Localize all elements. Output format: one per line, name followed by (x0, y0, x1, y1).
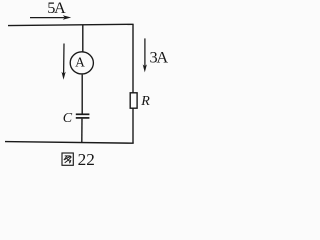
svg-text:R: R (140, 94, 150, 109)
current arrow branch (down, left of ammeter) (62, 44, 66, 80)
capacitor C top plate (76, 113, 90, 115)
wire middle branch upper (top node to ammeter) (82, 25, 84, 52)
resistor R (130, 93, 137, 108)
wire ammeter to capacitor (81, 75, 83, 114)
wire top horizontal (8, 24, 134, 25)
wire right vertical upper (node to resistor) (132, 24, 134, 93)
current arrow 3A (down, right branch) (143, 38, 147, 72)
wire capacitor to bottom (81, 119, 83, 143)
ammeter A (meter circle) (70, 52, 93, 74)
caption glyph 图 (figure) (62, 153, 73, 165)
svg-text:A: A (75, 54, 85, 69)
svg-text:C: C (63, 111, 73, 126)
svg-text:5A: 5A (47, 0, 66, 17)
current arrow 5A (top, rightward) (30, 15, 71, 19)
wire right vertical lower (resistor to bottom) (132, 108, 134, 143)
capacitor C bottom plate (76, 117, 90, 119)
wire bottom horizontal (5, 142, 134, 144)
svg-text:3A: 3A (150, 47, 169, 66)
svg-text:22: 22 (78, 150, 95, 169)
